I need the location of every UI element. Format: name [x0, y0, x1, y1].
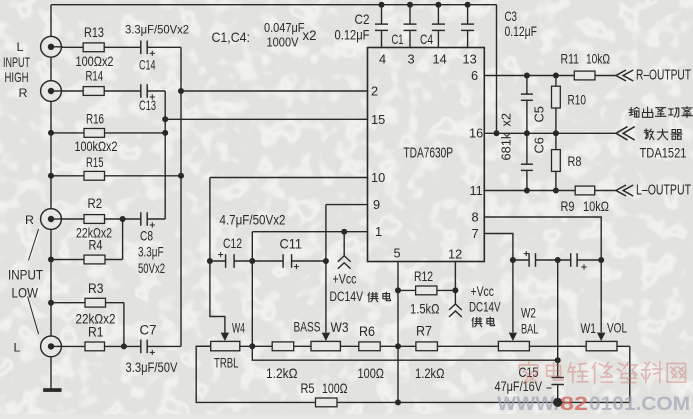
wire pin 10 drop to C12 node — [209, 178, 211, 262]
wire R10 branch — [555, 76, 557, 87]
svg-text:C14: C14 — [139, 58, 156, 73]
capacitor C8 — [140, 212, 142, 226]
node bus R16 — [48, 130, 54, 136]
wire pin 13 to decoupling cap — [467, 5, 469, 24]
svg-text:1: 1 — [375, 224, 382, 239]
svg-text:C6: C6 — [532, 137, 547, 153]
RCA jack L INPUT LOW — [41, 336, 62, 357]
resistor R11 — [574, 71, 595, 80]
svg-text:3.3μF: 3.3μF — [138, 245, 164, 260]
svg-text:10kΩ: 10kΩ — [583, 199, 609, 214]
svg-text:TRBL: TRBL — [214, 356, 239, 371]
svg-text:x2: x2 — [303, 28, 317, 43]
svg-text:R5: R5 — [301, 381, 315, 396]
svg-text:C7: C7 — [140, 323, 157, 338]
svg-text:HIGH: HIGH — [5, 70, 29, 85]
potentiometer W2 BAL — [498, 341, 529, 350]
resistor R6 — [359, 342, 380, 351]
svg-text:L: L — [14, 341, 21, 355]
svg-text:R7: R7 — [416, 324, 432, 339]
wire pin 9 drop to C11 node and W3 wiper — [325, 205, 327, 333]
wire C5 branch — [526, 76, 528, 95]
svg-text:R13: R13 — [84, 25, 104, 40]
svg-text:681k: 681k — [499, 132, 514, 160]
wire C8 to corner x165 — [148, 218, 166, 220]
svg-text:14: 14 — [433, 52, 447, 67]
capacitor C11 — [282, 254, 284, 268]
svg-text:13: 13 — [463, 52, 477, 67]
svg-text:+Vcc: +Vcc — [471, 284, 495, 299]
resistor R2 — [84, 215, 105, 224]
resistor R12 — [416, 286, 437, 295]
RCA jack L INPUT HIGH — [41, 36, 62, 57]
svg-text:C12: C12 — [223, 236, 242, 251]
label gongdian right — [472, 317, 482, 327]
wire C14 to corner x181 — [148, 46, 182, 48]
node caps row — [510, 257, 516, 263]
svg-text:R15: R15 — [86, 155, 104, 170]
capacitor C14 — [140, 41, 142, 55]
output arrow R-OUTPUT — [616, 70, 626, 81]
svg-text:R1: R1 — [88, 325, 104, 340]
wire pin1/C12-C11 node vertical — [251, 232, 253, 347]
wire R15 row — [51, 175, 181, 177]
wire TRBL feedback loop left — [196, 346, 315, 402]
node tone row left — [249, 343, 255, 349]
ground symbol — [43, 388, 61, 392]
wire C6 branch — [526, 133, 528, 164]
svg-text:C1: C1 — [392, 32, 404, 47]
wire pin 12 vertical — [454, 262, 456, 304]
node R1/R3 — [121, 343, 127, 349]
svg-text:C4: C4 — [420, 32, 433, 47]
svg-text:11: 11 — [470, 183, 483, 198]
wire pin 5 vertical — [397, 262, 399, 403]
wire pin 6 row — [484, 75, 574, 77]
capacitor C6 — [521, 163, 533, 165]
svg-text:x2: x2 — [499, 113, 514, 127]
svg-text:R6: R6 — [359, 324, 375, 339]
svg-text:BAL: BAL — [521, 322, 539, 337]
wire top-rail right drop to pin16 row — [496, 5, 498, 134]
wiper arrow W4 — [221, 333, 229, 341]
potentiometer W4 TRBL — [211, 341, 240, 350]
svg-text:6: 6 — [471, 68, 478, 83]
wire +Vcc stem at pin 1 — [343, 232, 345, 256]
wire pin 1 row — [252, 231, 367, 233]
wire W1 wiper drop — [600, 260, 602, 332]
resistor R5 — [316, 398, 338, 407]
svg-text:4: 4 — [379, 52, 386, 67]
svg-text:0101.COM: 0101.COM — [589, 393, 690, 414]
svg-text:R3: R3 — [88, 281, 104, 296]
polarity + of C11 — [294, 266, 299, 268]
svg-text:W3: W3 — [331, 320, 349, 335]
svg-text:8: 8 — [472, 209, 479, 224]
wire W1 right drop — [629, 346, 631, 402]
junction dots top rail — [379, 2, 385, 8]
node C15 bottom — [553, 398, 562, 407]
svg-text:R8: R8 — [568, 154, 582, 169]
svg-text:100kΩx2: 100kΩx2 — [75, 139, 118, 154]
svg-text:DC14V: DC14V — [469, 300, 501, 315]
resistor R7 — [416, 342, 438, 351]
svg-text:2: 2 — [371, 84, 378, 99]
label gongdian left — [368, 292, 378, 302]
svg-text:VOL: VOL — [607, 321, 627, 336]
svg-text:5: 5 — [394, 246, 401, 261]
wire W4 wiper path from pin10 node — [210, 261, 225, 333]
capacitor C7 — [140, 340, 142, 354]
node bottom row pin5 — [395, 399, 401, 405]
wire R4 up to R2 node — [122, 219, 124, 260]
svg-text:10kΩ: 10kΩ — [586, 52, 610, 67]
label chinese amplifier — [644, 129, 654, 140]
wire R2 row jack R-low to C8 — [60, 218, 141, 220]
node R16/x165 — [162, 130, 168, 136]
power +Vcc symbol right — [449, 311, 462, 317]
wire long vertical x181 (C14/pin2/R15/C7 node) — [180, 47, 182, 346]
potentiometer W3 BASS — [311, 341, 340, 350]
wiper arrow W1 — [597, 333, 605, 341]
svg-text:R9: R9 — [561, 199, 575, 214]
svg-text:DC14V: DC14V — [330, 289, 364, 304]
wire C7 to corner x181 — [148, 345, 182, 347]
node bus R4 — [48, 257, 54, 263]
polarity - of C15 — [547, 387, 552, 389]
wire C12 row — [210, 260, 226, 262]
capacitor W2 coupling cap — [528, 253, 530, 267]
wire R4 row — [51, 259, 123, 261]
svg-text:R2: R2 — [88, 196, 103, 211]
node R12 left — [395, 287, 401, 293]
svg-text:1.2kΩ: 1.2kΩ — [415, 366, 445, 381]
svg-text:C2: C2 — [355, 12, 370, 27]
svg-text:C8: C8 — [140, 229, 153, 244]
wire R8 branch — [555, 133, 557, 149]
svg-text:INPUT: INPUT — [3, 55, 30, 70]
node tone row pin5 — [395, 343, 401, 349]
node pin16 row — [524, 130, 530, 136]
node bus R3 — [48, 300, 54, 306]
capacitor C12 — [225, 254, 227, 268]
svg-text:3: 3 — [408, 52, 415, 67]
resistor R13 — [83, 43, 104, 52]
node +Vcc pin1 row — [341, 229, 347, 235]
potentiometer W1 VOL — [586, 341, 617, 350]
svg-text:R: R — [25, 213, 34, 227]
watermark chinese site name — [519, 362, 538, 383]
wire pin 14 to decoupling cap — [437, 5, 439, 24]
capacitor C4 — [432, 23, 445, 25]
svg-text:W1: W1 — [581, 321, 597, 336]
node C5/R10 top — [524, 73, 530, 79]
resistor 1.2k feedback — [272, 342, 294, 351]
node pin15/x165 — [162, 116, 168, 122]
wire pin 15 row — [165, 118, 367, 120]
node pin10/C12 — [207, 258, 213, 264]
svg-text:C3: C3 — [505, 9, 518, 24]
wire pin 10 row — [210, 177, 368, 179]
svg-text:82: 82 — [560, 393, 588, 414]
svg-text:R12: R12 — [414, 269, 433, 284]
svg-text:100Ωx2: 100Ωx2 — [76, 54, 114, 69]
resistor R16 — [84, 129, 105, 138]
resistor R4 — [84, 255, 105, 264]
wire pin 3 to decoupling cap — [409, 5, 411, 24]
svg-text:TDA7630P: TDA7630P — [404, 145, 454, 162]
wire C15 branch — [557, 260, 559, 378]
power +Vcc symbol left — [338, 263, 351, 269]
wire node to C15 top rail — [252, 346, 557, 360]
wire top supply rail — [51, 4, 497, 6]
svg-text:16: 16 — [469, 126, 483, 141]
resistor R14 — [83, 87, 104, 96]
svg-text:WWW.: WWW. — [497, 393, 559, 414]
wire vertical x165 (C13/pin15/R16/C8 node) — [164, 91, 166, 219]
IC U1 TDA7630P — [368, 48, 485, 262]
node pin9/C11 — [323, 258, 329, 264]
wire R1 row jack L-low to C7 — [60, 345, 141, 347]
svg-text:0.12μF: 0.12μF — [335, 28, 370, 43]
svg-text:BASS: BASS — [294, 320, 321, 335]
capacitor W1 coupling cap — [570, 253, 572, 267]
svg-text:R10: R10 — [568, 93, 587, 108]
svg-text:1.2kΩ: 1.2kΩ — [266, 366, 298, 381]
svg-text:0.12μF: 0.12μF — [505, 24, 538, 39]
svg-text:L–OUTPUT: L–OUTPUT — [636, 183, 691, 199]
wire C13 to corner x165 — [148, 90, 166, 92]
svg-text:C11: C11 — [280, 237, 303, 252]
svg-text:100Ω: 100Ω — [322, 381, 348, 396]
node pin2/x181 — [178, 88, 184, 94]
wire R16 row — [51, 132, 165, 134]
svg-text:15: 15 — [371, 112, 385, 127]
capacitor C1 — [404, 23, 417, 25]
svg-text:LOW: LOW — [12, 286, 39, 301]
resistor R9 — [575, 186, 595, 195]
capacitor C15 — [551, 377, 564, 379]
wire R3 down to R1 node — [123, 303, 125, 347]
wire pin 11 row — [484, 190, 575, 192]
pointer lines input low — [29, 229, 39, 260]
wire R3 row — [51, 302, 124, 304]
polarity + of W1 cap — [581, 266, 586, 268]
node R15/x181 — [178, 173, 184, 179]
svg-text:C1,C4:: C1,C4: — [212, 30, 251, 45]
svg-text:R: R — [19, 86, 28, 100]
node pin16/top-rail — [494, 130, 500, 136]
wiper arrow W3 — [322, 333, 330, 341]
output arrow L-OUTPUT — [616, 185, 626, 196]
polarity + of W2 cap — [524, 253, 529, 255]
svg-text:12: 12 — [448, 247, 462, 262]
wire bottom row right of R5 — [337, 401, 630, 403]
wire tone row segments — [196, 345, 211, 347]
svg-text:R16: R16 — [86, 112, 104, 127]
node pin11 row — [524, 188, 530, 194]
resistor R1 — [85, 342, 105, 351]
wire output caps row — [513, 259, 529, 261]
svg-text:9: 9 — [373, 197, 380, 212]
wiper arrow W2 — [509, 333, 517, 341]
wire pin 16 row — [484, 132, 617, 134]
node R12 right — [452, 287, 458, 293]
wire pin 8 route — [484, 217, 601, 260]
node R2/R4/C8 — [120, 216, 126, 222]
node C15 top — [555, 357, 561, 363]
svg-text:4.7μF/50Vx2: 4.7μF/50Vx2 — [220, 213, 286, 228]
svg-text:C5: C5 — [532, 106, 547, 122]
svg-text:C13: C13 — [139, 98, 156, 113]
svg-text:1.5kΩ: 1.5kΩ — [410, 302, 440, 317]
wire R12 row — [398, 289, 416, 291]
svg-text:0.047μF: 0.047μF — [264, 20, 305, 35]
svg-text:10: 10 — [371, 170, 385, 185]
wire left input ground bus — [50, 5, 52, 389]
RCA jack R INPUT LOW — [41, 209, 62, 230]
wire pin 9 row — [326, 204, 368, 206]
label chinese output-to-power-amp — [629, 107, 639, 117]
resistor R8 — [552, 150, 561, 172]
svg-text:W2: W2 — [521, 306, 536, 321]
svg-text:50Vx2: 50Vx2 — [138, 261, 165, 276]
svg-text:3.3μF/50V: 3.3μF/50V — [126, 360, 179, 375]
RCA jack R INPUT HIGH — [41, 81, 62, 102]
wire R13 row jack L to C14 — [60, 46, 141, 48]
svg-text:+Vcc: +Vcc — [333, 272, 357, 287]
svg-text:INPUT: INPUT — [8, 268, 43, 283]
svg-text:7: 7 — [472, 226, 479, 241]
resistor R3 — [85, 298, 106, 307]
wire R14 row jack R to C13 — [60, 90, 141, 92]
wire pin 7 route — [484, 234, 513, 261]
svg-text:R–OUTPUT: R–OUTPUT — [636, 68, 691, 84]
capacitor C3 — [461, 23, 474, 25]
wire pin 2 row — [181, 90, 368, 92]
svg-text:100Ω: 100Ω — [358, 366, 385, 381]
svg-text:R14: R14 — [86, 69, 104, 84]
svg-text:TDA1521: TDA1521 — [640, 146, 687, 161]
svg-text:3.3μF/50Vx2: 3.3μF/50Vx2 — [125, 23, 189, 37]
output arrow to power amp — [616, 127, 628, 141]
capacitor C5 — [521, 93, 533, 95]
wire W2 wiper drop — [512, 260, 514, 332]
wire pin 4 to decoupling cap — [381, 5, 383, 24]
svg-text:R11: R11 — [561, 52, 580, 67]
capacitor C13 — [140, 84, 142, 98]
capacitor C2 — [375, 23, 388, 25]
node bus R15 — [48, 173, 54, 179]
polarity + of C12 — [218, 254, 223, 256]
svg-text:L: L — [17, 40, 24, 54]
svg-text:W4: W4 — [232, 321, 245, 336]
svg-text:1000V: 1000V — [267, 35, 299, 50]
resistor R10 — [552, 86, 561, 108]
node pin1/C12-C11 — [249, 258, 255, 264]
resistor R15 — [84, 171, 105, 180]
svg-text:R4: R4 — [89, 238, 103, 253]
